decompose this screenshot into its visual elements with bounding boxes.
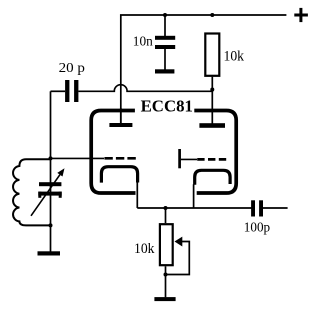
capacitor C 100p	[251, 200, 288, 216]
inductor L (tank coil)	[13, 159, 50, 225]
grid right: lead	[181, 158, 197, 160]
capacitor C 10n	[155, 15, 175, 70]
wire: tank vertical (through varicap)	[50, 158, 52, 225]
svg-text:10k: 10k	[224, 49, 245, 65]
tube U ECC81 envelope	[91, 111, 236, 194]
wire: cathode bus to 100p	[137, 207, 252, 209]
wire: right anode lead	[211, 90, 213, 125]
cathode right	[194, 170, 231, 208]
svg-text:ECC81: ECC81	[141, 97, 193, 116]
node: rail-10k junction	[210, 13, 214, 17]
node: rail-10n junction	[163, 13, 167, 17]
wire: tank bottom to ground	[50, 225, 52, 251]
potentiometer bottom lead	[165, 266, 167, 297]
cathode left	[101, 167, 137, 208]
resistor R 10k (anode load)	[205, 34, 219, 90]
potentiometer R 10k body	[160, 224, 173, 265]
node: anode-feedback junction	[210, 88, 214, 92]
svg-text:10n: 10n	[133, 34, 153, 49]
anode left (plate bar)	[109, 108, 132, 127]
wire: 20p left lead down to tank	[50, 91, 52, 158]
svg-text:10k: 10k	[134, 241, 155, 257]
node: cathode junction	[164, 206, 168, 210]
wire: wiper return to bottom	[166, 242, 190, 275]
wire: 20p output to anode node (with hop over left anode lead)	[78, 85, 212, 92]
node: tank bottom junction	[49, 223, 53, 227]
svg-text:100p: 100p	[244, 219, 271, 234]
grid right: dashed grid	[197, 158, 227, 161]
ground (pot)	[154, 297, 175, 301]
grid left: wire from tank	[51, 157, 105, 159]
node: pot bottom junction	[164, 273, 168, 277]
node: tank top junction	[49, 156, 53, 160]
wire: +V supply rail	[121, 15, 287, 124]
ground (tank)	[38, 251, 61, 255]
supply + terminal	[294, 8, 308, 22]
potentiometer wiper arrow	[175, 237, 183, 247]
grid right: terminal tick	[178, 149, 181, 168]
potentiometer R 10k: top lead	[165, 208, 167, 223]
grid left: dashed grid	[104, 157, 136, 160]
ground (below 10n)	[155, 69, 174, 73]
variable capacitor (tuning) plates	[38, 182, 61, 198]
variable capacitor arrow	[31, 168, 65, 216]
anode right (plate bar)	[199, 123, 225, 128]
capacitor C 20p	[51, 80, 79, 102]
svg-text:20 p: 20 p	[59, 60, 86, 75]
